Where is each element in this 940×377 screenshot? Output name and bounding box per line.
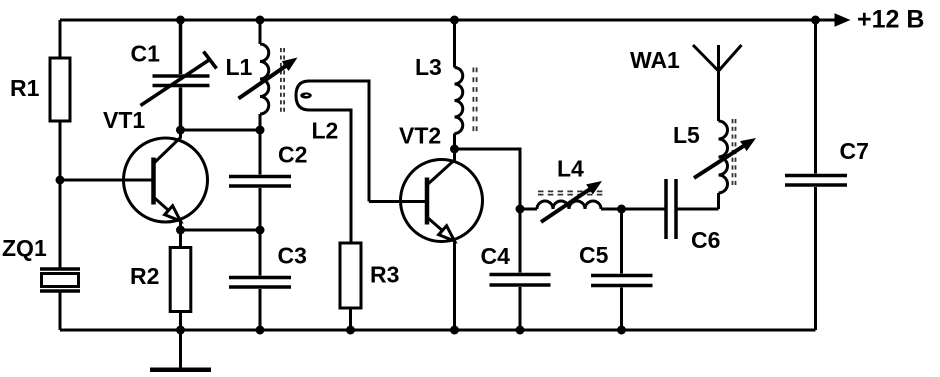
svg-text:C2: C2 <box>278 142 307 168</box>
node L1 bottom <box>256 126 265 135</box>
svg-text:C4: C4 <box>481 243 511 269</box>
svg-text:C6: C6 <box>691 227 720 253</box>
capacitor C5 <box>591 209 653 330</box>
svg-text:R1: R1 <box>10 75 40 101</box>
svg-text:VT2: VT2 <box>399 123 441 149</box>
node C5 bottom <box>617 326 626 335</box>
node base of VT1 <box>56 176 65 185</box>
svg-text:R3: R3 <box>370 262 399 288</box>
capacitor C3 <box>229 230 291 330</box>
svg-text:R2: R2 <box>130 263 159 289</box>
transistor VT1 <box>124 130 208 230</box>
capacitor C7 <box>785 20 847 330</box>
node L4 right <box>617 205 626 214</box>
svg-text:C7: C7 <box>840 138 869 164</box>
svg-text:VT1: VT1 <box>103 107 145 133</box>
node L1 top <box>256 16 265 25</box>
node L3 top <box>450 16 459 25</box>
inductor L1 (variable) <box>239 20 298 130</box>
svg-text:C3: C3 <box>278 243 307 269</box>
node C1 bottom / VT1 collector <box>176 126 185 135</box>
inductor L2 (coupling loop) <box>296 81 369 243</box>
svg-text:L1: L1 <box>226 54 253 80</box>
wire top +12V rail <box>60 19 836 22</box>
capacitor C4 <box>490 209 551 330</box>
wire emitter node to C2/C3 node <box>181 229 261 232</box>
node VT2 emitter bottom <box>450 326 459 335</box>
inductor L4 (variable) <box>520 181 622 222</box>
crystal ZQ1 <box>40 269 80 291</box>
node L4 left <box>516 205 525 214</box>
node R3 bottom <box>346 326 355 335</box>
svg-text:WA1: WA1 <box>630 47 680 73</box>
node C3 bottom <box>256 326 265 335</box>
wire collector node to L1 <box>181 129 261 132</box>
svg-text:L4: L4 <box>557 156 584 182</box>
svg-text:L5: L5 <box>673 122 700 148</box>
node emitter <box>176 226 185 235</box>
wire VT2 collector to L4 <box>455 149 521 209</box>
svg-text:L2: L2 <box>312 118 339 144</box>
inductor L5 (variable) <box>694 71 756 209</box>
ground <box>150 330 211 372</box>
node C7 top <box>811 16 820 25</box>
svg-text:L3: L3 <box>415 54 442 80</box>
svg-text:+12 В: +12 В <box>857 6 924 34</box>
+12 V supply arrow <box>835 13 851 27</box>
wire VT2 base <box>369 200 425 203</box>
node C4 bottom <box>516 326 525 335</box>
capacitor C6 <box>622 179 719 239</box>
capacitor C2 <box>229 130 291 230</box>
svg-text:C5: C5 <box>579 242 609 268</box>
wire bottom ground rail <box>60 329 816 332</box>
inductor L3 <box>454 20 476 149</box>
resistor R1 <box>50 58 70 121</box>
node VT2 collector <box>450 145 459 154</box>
svg-text:C1: C1 <box>131 41 161 67</box>
node R2 bottom <box>176 326 185 335</box>
wire VT1 base <box>60 179 152 182</box>
node C1 top <box>176 16 185 25</box>
transistor VT2 <box>401 149 483 330</box>
antenna WA1 <box>693 45 742 71</box>
capacitor C1 (trimmer) <box>141 20 217 130</box>
svg-text:ZQ1: ZQ1 <box>2 235 47 261</box>
resistor R3 <box>340 243 361 330</box>
wire left branch vertical <box>59 20 62 330</box>
resistor R2 <box>170 230 191 330</box>
node C2/C3 <box>256 226 265 235</box>
